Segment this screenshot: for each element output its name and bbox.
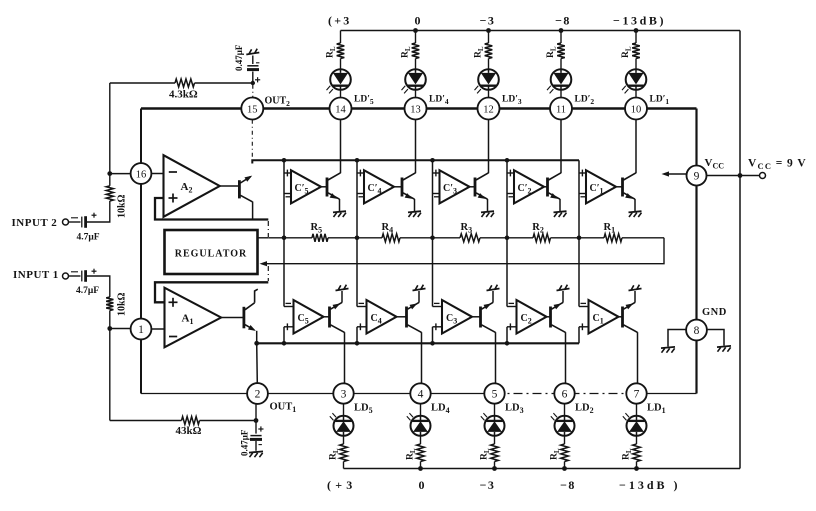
wire: 10k to pin 16 node xyxy=(109,174,111,186)
wire: C'3 - input stub xyxy=(433,193,440,195)
LED LD4 xyxy=(411,416,431,436)
node: OUT1 feedback junction xyxy=(254,418,259,423)
resistor 10k-ohm (input 2) xyxy=(106,186,113,201)
wire: C'1 output to Q base xyxy=(616,186,622,188)
node: VCC junction on right feed line xyxy=(738,173,743,178)
wire: C2 + input to bus xyxy=(506,327,508,344)
svg-text:11: 11 xyxy=(556,104,566,115)
wire: pin to LED LD2 xyxy=(564,404,566,416)
node: bottom rail junction xyxy=(492,466,497,471)
terminal: INPUT 2 xyxy=(63,219,69,225)
wire: C'1 - input stub xyxy=(579,193,586,195)
wire: C1 - input column from ladder xyxy=(578,238,580,307)
svg-text:(+3: (+3 xyxy=(327,478,356,492)
label R_L (bottom, LD4 column) xyxy=(406,448,418,460)
wire: bottom dB reference rail xyxy=(344,468,741,470)
svg-text:INPUT 2: INPUT 2 xyxy=(12,217,58,229)
svg-text:10kΩ: 10kΩ xyxy=(117,194,128,218)
svg-text:(+3: (+3 xyxy=(328,14,351,28)
svg-text:LD′2: LD′2 xyxy=(575,95,595,107)
IC outline: bottom edge (right solid part) xyxy=(646,393,697,395)
arrowhead: C2 collector branch xyxy=(554,303,562,309)
svg-text:8: 8 xyxy=(694,325,700,337)
terminal: VCC=9V xyxy=(760,173,766,179)
pin 7 xyxy=(626,383,646,403)
resistor R_L (bottom, LD1 column) xyxy=(633,444,641,462)
wire: C'1 emitter to ground xyxy=(634,199,636,211)
wire: A1 loop to regulator line (dash-dot) xyxy=(267,266,269,281)
label R_L (top, LD'1 column) xyxy=(621,46,633,58)
arrowhead: C'2 emitter xyxy=(550,193,558,199)
svg-text:REGULATOR: REGULATOR xyxy=(175,249,248,260)
wire: bottom signal bus xyxy=(257,342,579,344)
svg-text:4.7μF: 4.7μF xyxy=(77,233,100,243)
resistor R_L (bottom, LD5 column) xyxy=(340,444,348,462)
capacitor 0.47uF (OUT1) xyxy=(255,421,257,434)
label R_L (bottom, LD5 column) xyxy=(329,448,341,460)
wire: ladder segment before R5 xyxy=(268,237,312,239)
wire: top signal bus xyxy=(252,160,579,163)
node: top bus junction xyxy=(355,158,360,163)
LED LD2 xyxy=(555,416,575,436)
wire: top rail to R_L (LD'4 column) xyxy=(415,31,417,44)
wire: LED LD3 to R_L xyxy=(494,435,496,444)
wire: ladder segment before R2 xyxy=(480,237,533,239)
resistor R_L (bottom, LD4 column) xyxy=(417,444,425,462)
transistor Q (C2) xyxy=(549,307,552,328)
svg-text:0: 0 xyxy=(415,14,421,28)
svg-text:2: 2 xyxy=(255,388,261,400)
svg-text:1: 1 xyxy=(138,324,144,336)
wire: feedback drop (input 1) xyxy=(109,329,111,421)
node: input 2 / feedback junction xyxy=(107,171,112,176)
svg-text:−3: −3 xyxy=(480,14,496,28)
resistor R_L (top, LD'2 column) xyxy=(557,43,565,59)
resistor 43k-ohm xyxy=(182,417,200,425)
wire: LED LD'1 to pin xyxy=(635,89,637,97)
comparator C'4 xyxy=(364,170,394,203)
arrowhead: C5 collector branch xyxy=(333,303,341,309)
wire: C1 output to Q base xyxy=(619,316,622,318)
wire: C'5 - input stub xyxy=(284,193,291,195)
svg-text:0.47μF: 0.47μF xyxy=(234,44,244,71)
label 0.47uF (OUT2) xyxy=(234,44,244,71)
comparator C3 xyxy=(442,300,472,334)
svg-text:−8: −8 xyxy=(555,14,571,28)
arrowhead: into regulator xyxy=(260,261,268,266)
wire: R_L to LED LD'5 xyxy=(340,59,342,70)
regulator block xyxy=(165,230,258,274)
transistor Q (C'4) xyxy=(401,178,404,197)
node: ladder junction xyxy=(505,236,510,241)
node: bottom rail junction xyxy=(418,466,423,471)
wire: C5 output to Q base xyxy=(324,316,329,318)
wire: top rail to R_L (LD'5 column) xyxy=(340,31,342,44)
arrowhead: C4 collector branch xyxy=(410,303,418,309)
wire: C4 output to Q base xyxy=(397,316,406,318)
svg-text:−8: −8 xyxy=(560,478,576,492)
wire: C4 to V+ mark xyxy=(418,291,420,303)
wire: C'3 collector to pin xyxy=(488,120,490,173)
wire: comparator C'1 input column xyxy=(578,160,580,238)
ground (C'5 emitter) xyxy=(333,211,346,212)
wire: C2 output to Q base xyxy=(547,316,550,318)
transistor Q (C'3) xyxy=(474,178,477,197)
pin 1 xyxy=(131,319,152,340)
wire: R_L to bottom rail xyxy=(494,462,496,469)
wire: C2 to V+ mark xyxy=(562,291,564,303)
wire: C'4 + input stub xyxy=(357,172,364,174)
svg-text:16: 16 xyxy=(136,169,147,180)
svg-text:13: 13 xyxy=(410,104,421,115)
label R_L (top, LD'5 column) xyxy=(326,46,338,58)
wire: ladder segment before R4 xyxy=(328,237,382,239)
capacitor 4.7uF (input 2) xyxy=(81,217,83,228)
label 10k-ohm (input 2) xyxy=(117,194,128,218)
wire: cap to 10k (input 2) xyxy=(87,201,110,222)
wire: ladder segment before R1 xyxy=(551,237,605,239)
wire: R_L to LED LD'1 xyxy=(635,59,637,70)
wire: C'2 collector to pin xyxy=(560,120,562,173)
pin 10 xyxy=(625,98,647,120)
wire: C'4 output to Q base xyxy=(394,186,402,188)
svg-text:LD′1: LD′1 xyxy=(650,95,670,107)
wire: C'5 + input stub xyxy=(284,172,291,174)
wire: comparator C'3 input column xyxy=(432,160,434,238)
node: top bus junction xyxy=(505,158,510,163)
transistor Q (C3) xyxy=(479,307,482,328)
svg-text:10: 10 xyxy=(631,104,642,115)
wire: C'2 - input stub xyxy=(507,193,514,195)
V+ mark (C4) xyxy=(413,289,426,291)
wire: LED LD'3 to pin xyxy=(488,89,490,97)
comparator C'3 xyxy=(440,170,470,203)
resistor 10k-ohm (input 1) xyxy=(106,297,113,311)
LED LD'4 xyxy=(405,69,426,90)
pin 14 xyxy=(330,98,352,120)
wire: R_L to LED LD'2 xyxy=(560,59,562,70)
ground (OUT2 cap) xyxy=(246,53,259,55)
comparator C4 xyxy=(367,300,397,334)
wire: C2 + input stub xyxy=(507,326,517,328)
svg-text:4.3kΩ: 4.3kΩ xyxy=(169,89,198,101)
comparator C5 xyxy=(294,300,324,334)
transistor Q (C5) xyxy=(328,307,331,328)
wire: top rail to R_L (LD'1 column) xyxy=(635,31,637,44)
wire: ladder wrap to regulator xyxy=(266,238,664,264)
comparator C1 xyxy=(589,300,619,334)
svg-text:−13dB ): −13dB ) xyxy=(619,478,681,492)
wire: A1 + feedback loop xyxy=(155,282,268,302)
wire: R_L to bottom rail xyxy=(343,462,345,469)
V+ mark (C1) xyxy=(629,289,642,291)
wire: R_L to bottom rail xyxy=(564,462,566,469)
node: top rail junction xyxy=(559,28,564,33)
wire: LED LD4 to R_L xyxy=(420,435,422,444)
resistor R_L (bottom, LD2 column) xyxy=(561,444,569,462)
svg-text:LD′4: LD′4 xyxy=(429,95,449,107)
wire: top rail to R_L (LD'3 column) xyxy=(488,31,490,44)
wire: right VCC feed line xyxy=(739,31,741,469)
pin 12 xyxy=(478,98,500,120)
transistor Q (A2 output) xyxy=(238,180,241,198)
ground (right of pin 8) xyxy=(717,346,731,347)
label 10k-ohm (input 1) xyxy=(117,292,128,316)
wire: C4 - input column from ladder xyxy=(356,238,358,307)
wire: C'4 collector to pin xyxy=(415,120,417,173)
resistor R_L (top, LD'3 column) xyxy=(485,43,493,59)
node: input 1 / feedback junction xyxy=(107,326,112,331)
node: top bus junction xyxy=(282,158,287,163)
wire: pin to LED LD1 xyxy=(636,404,638,416)
arrowhead: C'4 emitter xyxy=(405,193,413,199)
wire: C'4 emitter to ground xyxy=(414,199,416,211)
resistor R5 xyxy=(312,234,328,242)
V+ mark (C3) xyxy=(487,289,500,291)
wire: LED LD'5 to pin xyxy=(340,89,342,97)
wire: input 1 terminal to C xyxy=(69,275,81,277)
wire: ladder segment before R3 xyxy=(400,237,460,239)
wire: node to pin 1 xyxy=(110,328,131,330)
svg-text:7: 7 xyxy=(634,388,640,400)
wire: pin 16 to A2 xyxy=(152,173,164,175)
IC outline: right edge xyxy=(695,109,697,394)
arrowhead: pin 9 into IC xyxy=(662,171,670,176)
wire: LED LD'2 to pin xyxy=(560,89,562,97)
wire: C2 emitter to pin xyxy=(565,332,567,383)
resistor R_L (top, LD'1 column) xyxy=(632,43,640,59)
node: bottom bus junction xyxy=(505,341,510,346)
capacitor 4.7uF (input 1) xyxy=(81,271,83,282)
wire: C2 - input stub xyxy=(507,306,517,308)
wire: C'5 output to Q base xyxy=(321,186,327,188)
IC outline: bottom edge (dash-dot part) xyxy=(495,393,647,395)
svg-text:9: 9 xyxy=(694,170,700,182)
svg-text:14: 14 xyxy=(335,104,346,115)
wire: C'3 + input stub xyxy=(433,172,440,174)
ground (C'2 emitter) xyxy=(554,211,567,212)
transistor Q (C4) xyxy=(405,307,408,328)
ground (OUT1 cap) xyxy=(249,451,263,452)
wire: C'5 emitter to ground xyxy=(339,199,341,211)
svg-text:4.7μF: 4.7μF xyxy=(76,286,99,296)
resistor R_L (top, LD'5 column) xyxy=(337,43,345,59)
wire: LED LD1 to R_L xyxy=(636,435,638,444)
wire: C3 output to Q base xyxy=(472,316,480,318)
wire: C'1 collector to pin xyxy=(635,120,637,173)
wire: ladder segment after R1 xyxy=(622,237,664,239)
svg-text:4: 4 xyxy=(418,388,424,400)
wire: pin 9 to VCC terminal xyxy=(706,175,760,177)
arrowhead: A1 emitter to bottom bus xyxy=(248,325,256,331)
pin 15 xyxy=(241,98,263,120)
comparator C'1 xyxy=(586,170,616,203)
arrowhead: C3 collector branch xyxy=(484,303,492,309)
wire: C'2 emitter to ground xyxy=(559,199,561,211)
wire: C5 - input stub xyxy=(284,306,294,308)
wire: feedback riser (input 2) xyxy=(109,83,111,174)
capacitor 0.47uF (OUT2) xyxy=(252,72,254,84)
IC outline: left edge xyxy=(140,109,142,394)
wire: 43k to OUT1 node xyxy=(200,420,257,422)
node: bottom bus junction xyxy=(355,341,360,346)
wire: C5 - input column from ladder xyxy=(283,238,285,307)
wire: pin to LED LD3 xyxy=(494,404,496,416)
IC outline: bottom edge (solid part) xyxy=(141,393,495,395)
wire: cap to 10k (input 1) xyxy=(87,276,110,297)
wire: pin 15 internal (dash-dot) xyxy=(251,120,253,158)
LED LD'1 xyxy=(626,69,647,90)
wire: regulator to ladder stub xyxy=(258,237,268,239)
svg-text:LD′3: LD′3 xyxy=(502,95,522,107)
wire: C4 + input stub xyxy=(357,326,367,328)
wire: OUT2 node to pin 15 (dash) xyxy=(252,85,254,98)
node: bottom rail junction xyxy=(562,466,567,471)
pin 6 xyxy=(554,383,574,403)
node: bottom bus junction xyxy=(430,341,435,346)
wire: pin 8 right ground branch xyxy=(707,330,725,346)
ground (C'4 emitter) xyxy=(408,211,421,212)
wire: pin 8 left ground branch xyxy=(668,330,687,347)
comparator C2 xyxy=(517,300,547,334)
wire: C1 to V+ mark xyxy=(634,291,636,303)
wire: A1 output to Q base xyxy=(221,317,243,319)
pin 16 xyxy=(131,163,152,184)
wire: top rail to R_L (LD'2 column) xyxy=(560,31,562,44)
label R_L (top, LD'2 column) xyxy=(546,46,558,58)
LED LD'3 xyxy=(478,69,499,90)
node: ladder junction xyxy=(577,236,582,241)
pin 5 xyxy=(484,383,504,403)
wire: R_L to LED LD'3 xyxy=(488,59,490,70)
comparator C'5 xyxy=(291,170,321,203)
wire: C5 + input to bus xyxy=(283,327,285,344)
LED LD3 xyxy=(485,416,505,436)
wire: R_L to bottom rail xyxy=(420,462,422,469)
wire: A1 emitter to bus node xyxy=(256,331,258,344)
wire: C'2 output to Q base xyxy=(544,186,547,188)
wire: LED LD2 to R_L xyxy=(564,435,566,444)
resistor R3 xyxy=(460,234,480,242)
wire: C4 emitter to pin xyxy=(421,332,423,383)
V+ mark (C5) xyxy=(336,289,349,291)
wire: C1 + input stub xyxy=(579,326,589,328)
svg-text:VCC = 9 V: VCC = 9 V xyxy=(748,158,807,172)
wire: feedback bottom run to 43k xyxy=(110,420,182,422)
node: bottom bus junction xyxy=(282,341,287,346)
pin 8 xyxy=(686,320,707,341)
transistor Q (C'5) xyxy=(326,178,329,197)
pin 4 xyxy=(410,383,430,403)
polarity dash input 1 cap xyxy=(71,271,78,273)
resistor R_L (bottom, LD3 column) xyxy=(491,444,499,462)
svg-text:LD′5: LD′5 xyxy=(354,95,374,107)
wire: LED LD'4 to pin xyxy=(415,89,417,97)
wire: R_L to LED LD'4 xyxy=(415,59,417,70)
transistor Q (C'2) xyxy=(546,178,549,197)
pin 3 xyxy=(333,383,353,403)
op-amp A1 xyxy=(165,288,222,348)
node: top rail junction xyxy=(413,28,418,33)
resistor R1 xyxy=(604,234,622,242)
resistor R_L (top, LD'4 column) xyxy=(412,43,420,59)
wire: C'1 + input stub xyxy=(579,172,586,174)
wire: C3 to V+ mark xyxy=(492,291,494,303)
pin 13 xyxy=(405,98,427,120)
resistor R2 xyxy=(533,234,551,242)
svg-text:OUT1: OUT1 xyxy=(270,402,297,415)
label R_L (top, LD'3 column) xyxy=(474,46,486,58)
LED LD5 xyxy=(334,416,354,436)
pin 2 xyxy=(247,383,268,404)
svg-text:43kΩ: 43kΩ xyxy=(176,425,202,437)
wire: C5 + input stub xyxy=(284,326,294,328)
wire: comparator C'4 input column xyxy=(356,160,358,238)
wire: 10k to pin 1 node xyxy=(109,311,111,329)
wire: C'2 + input stub xyxy=(507,172,514,174)
svg-text:0: 0 xyxy=(419,478,425,492)
wire: C3 + input to bus xyxy=(432,327,434,344)
wire: pin to LED LD5 xyxy=(343,404,345,416)
wire: bus node down to pin 2 xyxy=(256,343,259,383)
label R_L (top, LD'4 column) xyxy=(401,46,413,58)
transistor Q (C'1) xyxy=(621,178,624,197)
pin 11 xyxy=(550,98,572,120)
comparator C'2 xyxy=(514,170,544,203)
node: top bus junction xyxy=(430,158,435,163)
arrowhead: C1 collector branch xyxy=(626,303,634,309)
wire: A2 + feedback loop xyxy=(155,198,268,220)
svg-text:−13dB): −13dB) xyxy=(613,14,666,28)
wire: C1 + input to bus xyxy=(578,327,580,344)
wire: R_L to bottom rail xyxy=(636,462,638,469)
svg-text:INPUT 1: INPUT 1 xyxy=(13,269,59,281)
ground (C'3 emitter) xyxy=(481,211,494,212)
label R_L (bottom, LD1 column) xyxy=(622,448,634,460)
LED LD'2 xyxy=(551,69,572,90)
wire: feedback top run to 4.3k xyxy=(110,82,175,84)
LED LD'5 xyxy=(330,69,351,90)
transistor Q (C1) xyxy=(621,307,624,328)
node: ladder junction xyxy=(282,236,287,241)
wire: 4.3k to OUT2 node xyxy=(195,82,253,84)
node: top rail junction xyxy=(486,28,491,33)
wire: C'5 collector to pin xyxy=(340,120,342,173)
node: bottom rail junction xyxy=(634,466,639,471)
svg-text:3: 3 xyxy=(341,388,347,400)
wire: comparator C'5 input column xyxy=(283,160,285,238)
wire: A2 follower drop xyxy=(252,202,254,220)
wire: C4 - input stub xyxy=(357,306,367,308)
pin 9 xyxy=(687,166,707,186)
arrowhead: C'3 emitter xyxy=(478,193,486,199)
wire: C5 to V+ mark xyxy=(341,291,343,303)
arrowhead: C'1 emitter xyxy=(625,193,633,199)
wire: top dB reference rail xyxy=(341,30,741,32)
wire: C3 emitter to pin xyxy=(495,332,497,383)
IC outline: top edge xyxy=(141,107,697,109)
wire: C3 - input stub xyxy=(433,306,443,308)
wire: pin 2 to OUT1 node xyxy=(255,404,257,421)
ground (left of pin 8) xyxy=(661,347,675,348)
terminal: INPUT 1 xyxy=(63,273,69,279)
svg-text:GND: GND xyxy=(702,307,727,318)
op-amp A2 xyxy=(164,155,220,217)
wire: C1 - input stub xyxy=(579,306,589,308)
wire: pin 1 to A1 xyxy=(152,328,165,330)
polarity dash input 2 cap xyxy=(71,217,78,219)
svg-text:12: 12 xyxy=(483,104,494,115)
